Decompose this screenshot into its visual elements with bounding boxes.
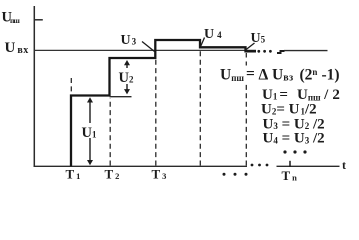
x-axis left segment (time axis) (34, 165, 248, 167)
svg-text:Uпш: Uпш (2, 10, 21, 26)
svg-text:U2= U1/2: U2= U1/2 (261, 102, 317, 118)
formula 2: U1 = Upsh / 2 (262, 87, 340, 103)
x-axis gap dots (251, 164, 269, 167)
dashed line step5 lower part (245, 82, 247, 166)
Uvx reference line (34, 49, 256, 51)
svg-text:Uпш: Uпш (220, 67, 244, 84)
svg-text:Tn: Tn (282, 168, 298, 183)
leader line U5 (246, 43, 255, 50)
dots below axis (223, 173, 248, 176)
arrow U2 (118, 60, 136, 94)
svg-text:T1: T1 (66, 167, 81, 182)
formula 1 background (248, 66, 342, 82)
svg-text:U1=: U1= (262, 87, 288, 103)
x-axis right segment (277, 165, 340, 167)
staircase waveform (71, 40, 256, 166)
svg-text:T3: T3 (152, 167, 167, 182)
svg-text:U3: U3 (121, 33, 137, 48)
leader line U4 (201, 38, 205, 47)
tick Tn on x-axis (289, 161, 291, 167)
dashed line step4 (199, 48, 201, 166)
waveform dots on Uvx level (257, 50, 271, 53)
formula 1: Upsh = dUvz (2^n - 1) (220, 66, 340, 84)
step1 level extension line (110, 96, 132, 98)
svg-text:=: = (246, 66, 255, 83)
dashed stub above T1 corner (70, 78, 72, 94)
dots below formulas (283, 150, 306, 153)
svg-text:T2: T2 (105, 167, 120, 182)
svg-text:t: t (342, 158, 346, 172)
final mini steps (277, 51, 285, 53)
svg-text:Uпш/2: Uпш/2 (297, 87, 340, 103)
arrow U1 (81, 97, 99, 165)
y-axis (voltage axis) (33, 6, 35, 167)
tick Upsh on y-axis (34, 19, 43, 21)
leader line U3 (142, 42, 155, 52)
dashed line T2 (109, 98, 111, 166)
dashed line T3 (155, 59, 157, 166)
waveform tail on Uvx level (284, 50, 328, 52)
svg-text:U4 = U3 /2: U4 = U3 /2 (263, 131, 325, 147)
svg-text:Uвх: Uвх (5, 40, 29, 56)
svg-text:U4: U4 (204, 27, 222, 42)
dashed line step5 upper fragments (245, 53, 247, 66)
svg-text:Δ: Δ (259, 67, 269, 84)
